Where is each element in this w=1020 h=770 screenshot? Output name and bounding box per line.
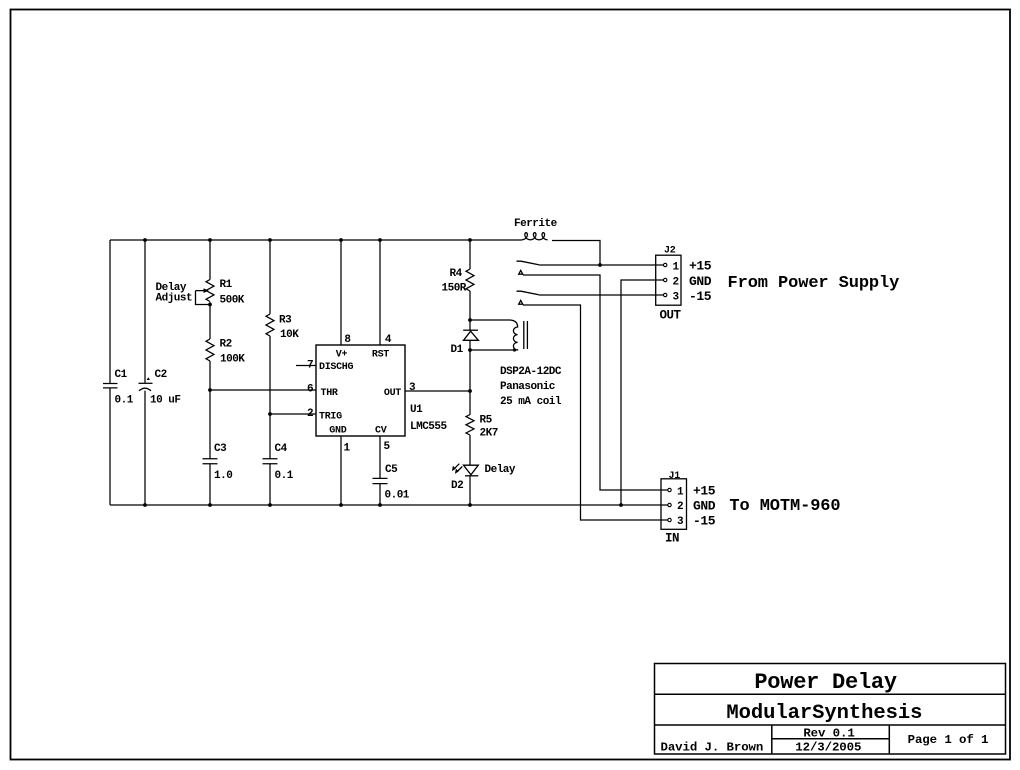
relay contact 1 fixed point bbox=[519, 270, 523, 274]
svg-text:TRIG: TRIG bbox=[319, 412, 342, 423]
node top bus / pin8 bbox=[339, 238, 343, 242]
svg-text:6: 6 bbox=[307, 384, 313, 396]
node bus / C5 bbox=[378, 503, 382, 507]
svg-text:R2: R2 bbox=[220, 338, 232, 350]
svg-text:2: 2 bbox=[677, 501, 683, 513]
svg-text:10K: 10K bbox=[280, 329, 299, 341]
svg-text:THR: THR bbox=[321, 388, 338, 399]
resistor R5 2K7 bbox=[466, 415, 474, 436]
svg-text:1: 1 bbox=[673, 261, 680, 273]
svg-text:0.1: 0.1 bbox=[115, 394, 134, 406]
wire relay coil bottom lead bbox=[470, 349, 515, 351]
svg-text:Ferrite: Ferrite bbox=[514, 218, 558, 230]
svg-text:C3: C3 bbox=[214, 443, 227, 455]
svg-text:J2: J2 bbox=[664, 246, 676, 257]
svg-text:C1: C1 bbox=[115, 369, 128, 381]
svg-text:R1: R1 bbox=[220, 279, 233, 291]
svg-text:12/3/2005: 12/3/2005 bbox=[795, 741, 861, 755]
wire TRIG from C4 junction bbox=[270, 413, 316, 415]
svg-text:R5: R5 bbox=[480, 415, 493, 427]
wire contact2 line to J2 pin3 bbox=[539, 294, 664, 296]
resistor R3 10K bbox=[266, 314, 274, 336]
node top bus / R1 bbox=[208, 238, 212, 242]
svg-text:4: 4 bbox=[385, 334, 392, 346]
title block bbox=[655, 664, 1006, 755]
svg-text:1: 1 bbox=[677, 486, 684, 498]
wire OUT pin3 to R5 column bbox=[405, 390, 470, 392]
diode D1 bbox=[463, 329, 478, 331]
wire pin5 CV to C5 bbox=[379, 436, 381, 505]
svg-text:10 uF: 10 uF bbox=[150, 394, 181, 406]
wire relay coil top lead bbox=[470, 319, 510, 321]
node top bus / R3 bbox=[268, 238, 272, 242]
svg-text:J1: J1 bbox=[669, 471, 681, 482]
svg-text:C5: C5 bbox=[385, 464, 398, 476]
svg-text:1.0: 1.0 bbox=[214, 470, 232, 482]
J2 pin circles bbox=[664, 263, 667, 266]
svg-text:R3: R3 bbox=[279, 314, 292, 326]
node R3 / TRIG bbox=[268, 412, 272, 416]
svg-text:D2: D2 bbox=[451, 480, 463, 492]
J1 pin circles bbox=[668, 488, 671, 491]
svg-text:-15: -15 bbox=[693, 514, 716, 529]
relay core bars bbox=[524, 321, 528, 349]
svg-text:8: 8 bbox=[344, 334, 351, 346]
svg-text:0.01: 0.01 bbox=[385, 489, 410, 501]
wire GND J2 pin2 down to bus bbox=[621, 280, 664, 505]
capacitor C4 0.1 bbox=[263, 459, 278, 464]
capacitor C1 0.1 bbox=[103, 384, 118, 388]
svg-text:GND: GND bbox=[329, 425, 346, 436]
svg-text:Delay: Delay bbox=[485, 464, 516, 476]
svg-text:Rev 0.1: Rev 0.1 bbox=[803, 726, 854, 740]
svg-text:1: 1 bbox=[344, 443, 351, 455]
svg-text:0.1: 0.1 bbox=[275, 470, 294, 482]
svg-text:7: 7 bbox=[307, 359, 313, 371]
svg-text:DISCHG: DISCHG bbox=[319, 362, 354, 373]
connector J2 box bbox=[656, 255, 681, 305]
wire pin4 RST stub bbox=[379, 240, 381, 345]
relay contact 2 blade bbox=[517, 291, 539, 295]
svg-text:2: 2 bbox=[673, 276, 679, 288]
node top bus / pin4 bbox=[378, 238, 382, 242]
svg-text:D1: D1 bbox=[451, 344, 464, 356]
node bus / J2 gnd bbox=[619, 503, 623, 507]
capacitor C2 10uF polarized bbox=[139, 382, 153, 384]
ferrite L1 coil on top bus bbox=[522, 233, 548, 240]
wire left vertical (C1 branch) bbox=[109, 240, 111, 505]
svg-text:V+: V+ bbox=[336, 349, 348, 360]
node ferrite / contact1 bbox=[598, 263, 602, 267]
wire R3/C4 column bbox=[269, 240, 271, 505]
capacitor C5 0.01 bbox=[373, 478, 388, 483]
wire THR from R2 junction bbox=[210, 389, 316, 391]
svg-text:GND: GND bbox=[693, 499, 716, 514]
wire contact2 output to J1 pin3 bbox=[523, 305, 668, 520]
node bus / C3 bbox=[208, 503, 212, 507]
svg-text:3: 3 bbox=[677, 516, 684, 528]
svg-text:25 mA coil: 25 mA coil bbox=[500, 396, 562, 408]
wire pin1 GND to bus bbox=[340, 436, 342, 505]
svg-text:IN: IN bbox=[665, 532, 679, 546]
svg-text:2K7: 2K7 bbox=[480, 428, 498, 440]
svg-text:DSP2A-12DC: DSP2A-12DC bbox=[500, 366, 562, 378]
wire R1/R2 column bbox=[209, 240, 211, 505]
svg-text:OUT: OUT bbox=[660, 309, 682, 323]
svg-text:Panasonic: Panasonic bbox=[500, 381, 555, 393]
svg-text:To MOTM-960: To MOTM-960 bbox=[729, 497, 840, 516]
node R1 wiper / R2 bbox=[208, 303, 212, 307]
node OUT / R5 bbox=[468, 389, 472, 393]
IC U1 LMC555 box bbox=[316, 345, 405, 436]
svg-text:C4: C4 bbox=[275, 443, 288, 455]
resistor R2 100K bbox=[206, 339, 214, 361]
svg-text:-15: -15 bbox=[689, 289, 712, 304]
svg-text:GND: GND bbox=[689, 274, 712, 289]
svg-text:2: 2 bbox=[307, 408, 313, 420]
svg-text:U1: U1 bbox=[410, 404, 423, 416]
relay contact 2 fixed point bbox=[519, 300, 523, 304]
node coil bottom end bbox=[513, 348, 516, 351]
LED D2 bbox=[464, 465, 479, 475]
node R2 / THR bbox=[208, 388, 212, 392]
svg-text:Page 1 of 1: Page 1 of 1 bbox=[908, 733, 989, 747]
svg-text:5: 5 bbox=[384, 441, 391, 453]
capacitor C3 1.0 bbox=[203, 459, 218, 464]
wire top bus right segment bbox=[552, 241, 600, 266]
wire C2 column bbox=[144, 240, 146, 505]
svg-text:3: 3 bbox=[673, 292, 680, 304]
node top bus / C2 bbox=[143, 238, 147, 242]
svg-text:From Power Supply: From Power Supply bbox=[728, 274, 900, 293]
node D1 / relay bottom bbox=[468, 348, 472, 352]
svg-text:100K: 100K bbox=[220, 354, 245, 366]
node bus / pin1 bbox=[339, 503, 343, 507]
wire pin8 V+ stub bbox=[340, 240, 342, 345]
node bus / C2 bottom bbox=[143, 503, 147, 507]
svg-text:CV: CV bbox=[375, 425, 387, 436]
node top bus / R4 bbox=[468, 238, 472, 242]
svg-text:+15: +15 bbox=[689, 259, 712, 274]
svg-text:RST: RST bbox=[372, 349, 389, 360]
svg-text:ModularSynthesis: ModularSynthesis bbox=[726, 702, 922, 725]
svg-text:3: 3 bbox=[409, 382, 416, 394]
svg-text:150R: 150R bbox=[442, 283, 467, 295]
relay K1 coil bbox=[510, 320, 518, 350]
LED D2 arrows bbox=[454, 464, 462, 472]
wire R4/D1/R5/D2 column bbox=[469, 240, 471, 505]
wire pin7 DISCHG stub bbox=[296, 365, 316, 367]
wire top bus left segment bbox=[110, 239, 522, 241]
svg-text:OUT: OUT bbox=[384, 388, 401, 399]
wire bottom ground bus bbox=[110, 504, 668, 506]
svg-text:Power Delay: Power Delay bbox=[754, 670, 897, 695]
resistor R1 500K bbox=[206, 280, 214, 302]
wire contact1 output to J1 pin1 bbox=[523, 275, 668, 490]
connector J1 box bbox=[661, 479, 687, 530]
wire contact1 line to J2 pin1 bbox=[539, 264, 664, 266]
svg-text:500K: 500K bbox=[220, 294, 245, 306]
node bus / C4 bbox=[268, 503, 272, 507]
svg-text:C2: C2 bbox=[155, 369, 167, 381]
relay contact 1 blade bbox=[517, 261, 539, 265]
svg-text:+15: +15 bbox=[693, 484, 716, 499]
svg-text:David J. Brown: David J. Brown bbox=[661, 741, 764, 755]
junction dots bbox=[143, 238, 623, 507]
node R4 / relay top bbox=[468, 318, 472, 322]
svg-text:LMC555: LMC555 bbox=[410, 421, 448, 433]
resistor R4 150R bbox=[466, 269, 474, 291]
node bus / D2 bbox=[468, 503, 472, 507]
svg-text:R4: R4 bbox=[450, 268, 463, 280]
svg-text:Adjust: Adjust bbox=[156, 293, 193, 305]
R1 pot wiper arm bbox=[196, 291, 211, 305]
